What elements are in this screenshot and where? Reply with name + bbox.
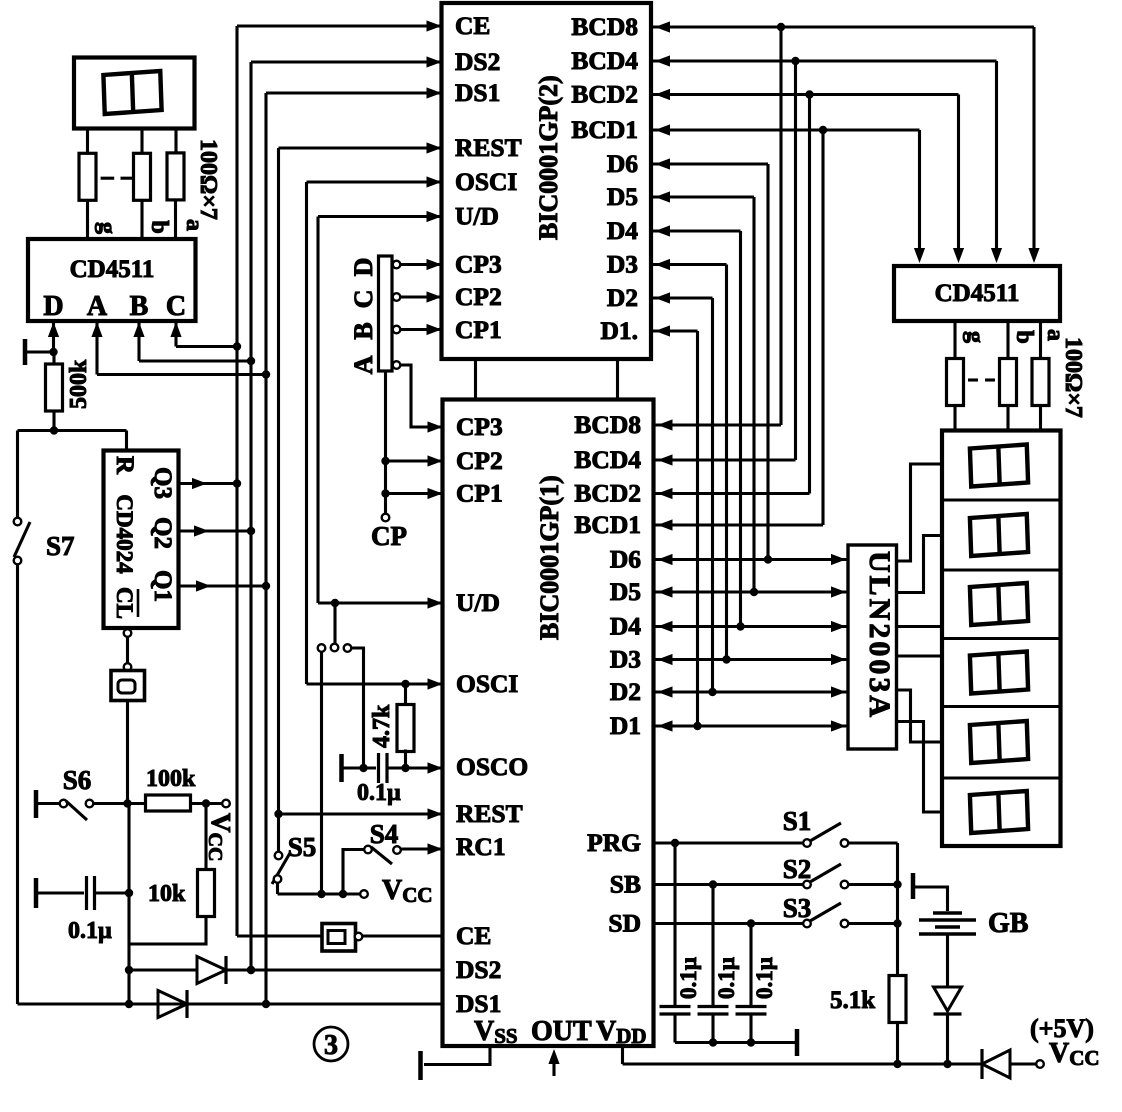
svg-text:RC1: RC1 [456,832,506,861]
svg-text:D4: D4 [607,216,638,245]
svg-text:OSCO: OSCO [456,752,528,781]
svg-text:DS2: DS2 [455,47,500,76]
svg-text:BCD8: BCD8 [574,410,641,439]
svg-text:100Ω×7: 100Ω×7 [1060,337,1086,418]
svg-text:REST: REST [455,133,522,162]
svg-text:D6: D6 [610,545,641,574]
svg-text:BCD1: BCD1 [571,115,638,144]
svg-text:CP3: CP3 [456,412,503,441]
svg-text:BCD2: BCD2 [574,479,641,508]
svg-text:BIC0001GP(2): BIC0001GP(2) [534,75,563,240]
svg-text:D5: D5 [607,182,638,211]
svg-text:Q1: Q1 [149,570,176,602]
svg-text:Q3: Q3 [149,467,176,499]
svg-text:Q2: Q2 [149,517,176,549]
svg-text:D1.: D1. [600,316,638,345]
svg-text:DS2: DS2 [456,955,501,984]
svg-text:SD: SD [608,909,641,938]
svg-text:S2: S2 [783,854,812,884]
svg-text:D5: D5 [610,577,641,606]
svg-text:0.1µ: 0.1µ [752,957,777,999]
svg-text:CD4511: CD4511 [935,280,1020,307]
svg-text:D2: D2 [607,283,638,312]
svg-text:B: B [349,322,378,339]
svg-text:U/D: U/D [456,588,500,617]
svg-text:S1: S1 [783,806,812,836]
svg-text:S5: S5 [288,832,317,862]
svg-text:BCD4: BCD4 [571,46,638,75]
svg-text:SB: SB [610,870,641,899]
svg-text:D6: D6 [607,149,638,178]
svg-text:D: D [43,291,63,322]
svg-text:CP: CP [371,521,407,551]
svg-text:D3: D3 [610,645,641,674]
svg-text:GB: GB [988,908,1028,939]
svg-text:BCD8: BCD8 [571,12,638,41]
svg-text:a: a [181,219,207,231]
svg-text:500k: 500k [66,359,92,409]
svg-text:D4: D4 [610,612,641,641]
svg-text:b: b [1011,330,1037,343]
svg-text:S3: S3 [783,893,812,923]
svg-text:OUT: OUT [531,1016,592,1047]
svg-text:CP3: CP3 [455,250,502,279]
svg-text:100k: 100k [146,766,196,792]
svg-text:DS1: DS1 [455,78,500,107]
svg-text:100Ω×7: 100Ω×7 [195,139,221,220]
svg-text:R: R [111,456,138,475]
svg-text:CD4511: CD4511 [70,256,155,283]
svg-text:U/D: U/D [455,202,499,231]
svg-text:CD4024: CD4024 [112,494,137,574]
svg-text:C: C [166,291,186,322]
svg-text:CL: CL [112,587,137,619]
svg-text:BCD2: BCD2 [571,80,638,109]
svg-text:A: A [349,355,378,374]
svg-text:0.1µ: 0.1µ [676,957,701,999]
svg-text:D: D [349,258,378,277]
svg-text:C: C [349,290,378,309]
svg-text:BIC0001GP(1): BIC0001GP(1) [535,475,564,640]
svg-text:CE: CE [456,921,491,950]
svg-text:5.1k: 5.1k [830,987,875,1014]
svg-text:DS1: DS1 [456,989,501,1018]
svg-text:D3: D3 [607,250,638,279]
svg-text:BCD1: BCD1 [574,510,641,539]
svg-text:ULN2003A: ULN2003A [863,551,896,720]
svg-text:S4: S4 [370,819,399,849]
svg-text:0.1µ: 0.1µ [68,918,112,944]
svg-text:OSCI: OSCI [456,669,518,698]
svg-text:S7: S7 [46,531,75,561]
svg-text:CP1: CP1 [455,315,502,344]
svg-text:3: 3 [324,1030,338,1061]
svg-text:g: g [962,331,988,343]
svg-text:CP2: CP2 [455,282,502,311]
svg-text:OSCI: OSCI [455,167,517,196]
svg-text:D2: D2 [610,677,641,706]
svg-text:B: B [130,291,149,322]
svg-text:4.7k: 4.7k [369,704,395,748]
svg-text:A: A [87,291,108,322]
svg-text:REST: REST [456,799,523,828]
svg-text:D1: D1 [610,711,641,740]
svg-text:CP2: CP2 [456,446,503,475]
svg-text:PRG: PRG [587,828,641,857]
svg-text:CP1: CP1 [456,479,503,508]
svg-text:0.1µ: 0.1µ [714,957,739,999]
svg-text:BCD4: BCD4 [574,445,641,474]
svg-text:CE: CE [455,11,490,40]
svg-text:10k: 10k [148,881,186,907]
svg-text:b: b [146,220,172,233]
svg-text:S6: S6 [63,765,92,795]
svg-text:g: g [94,222,120,234]
svg-text:0.1µ: 0.1µ [357,780,401,806]
